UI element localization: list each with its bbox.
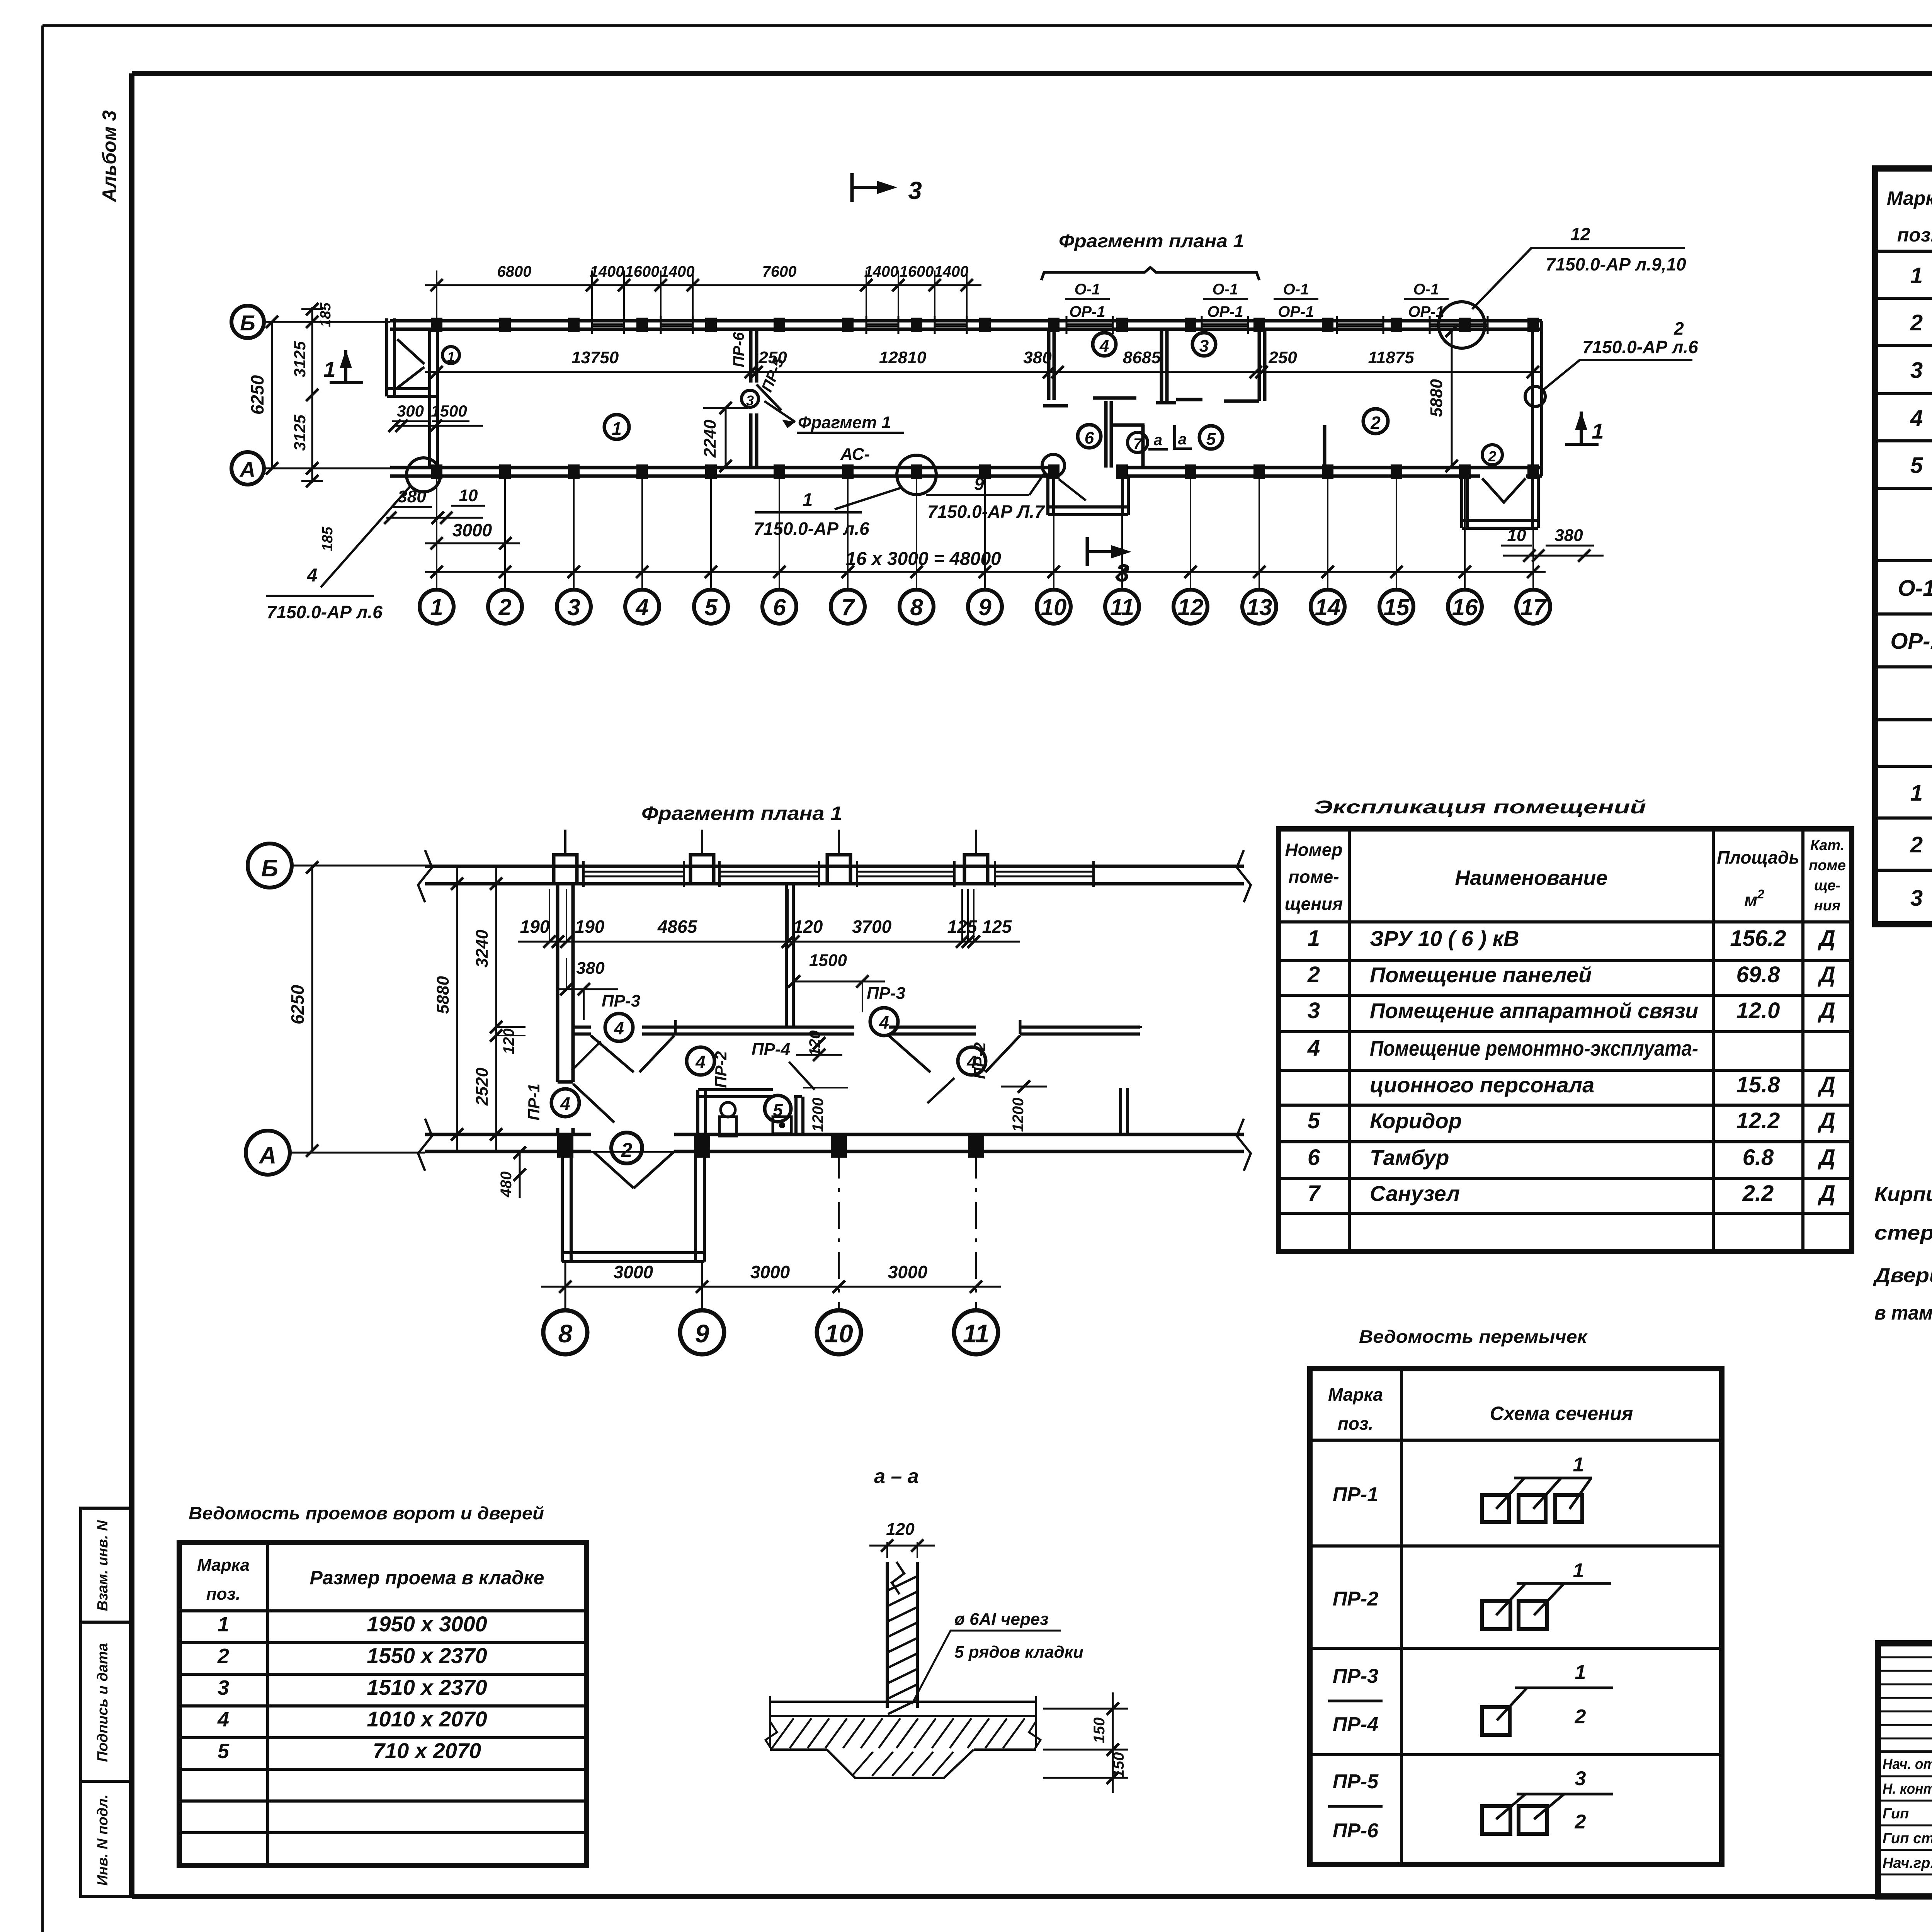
svg-text:Экспликация помещений: Экспликация помещений <box>1314 797 1646 818</box>
svg-text:Фрагмент плана 1: Фрагмент плана 1 <box>1059 231 1244 252</box>
axis B circle <box>231 306 390 338</box>
dimension 380/10 (bottom left) <box>384 486 485 524</box>
svg-text:О-1: О-1 <box>1213 281 1238 298</box>
svg-text:1950 x 3000: 1950 x 3000 <box>367 1612 487 1636</box>
svg-text:Марка: Марка <box>1328 1384 1383 1405</box>
svg-text:1: 1 <box>1910 263 1923 288</box>
svg-text:12.2: 12.2 <box>1736 1108 1780 1133</box>
door mark circle 4 at 2288 <box>870 1008 898 1036</box>
fragment wall A pilasters <box>557 1134 984 1158</box>
svg-text:4: 4 <box>307 565 318 586</box>
svg-text:3125: 3125 <box>291 415 309 451</box>
svg-text:Д: Д <box>1817 1181 1835 1206</box>
lintel section diagrams <box>1482 1454 1613 1834</box>
callout 2 / 7150.0-AR l.6 (right wall) <box>1525 318 1698 406</box>
svg-text:5 рядов кладки: 5 рядов кладки <box>954 1643 1083 1662</box>
svg-text:5: 5 <box>773 1100 783 1120</box>
svg-text:ПР-1: ПР-1 <box>525 1083 543 1121</box>
svg-text:поз.: поз. <box>1897 224 1932 246</box>
svg-text:а: а <box>1154 432 1162 449</box>
section hatched band and footing <box>770 1716 1036 1778</box>
svg-text:156.2: 156.2 <box>1730 926 1786 951</box>
svg-text:АС-: АС- <box>840 445 870 464</box>
section mark 3 (bottom) <box>1087 537 1131 587</box>
fragment dimension 480 <box>498 1146 526 1198</box>
svg-text:Кат.: Кат. <box>1810 837 1844 854</box>
svg-text:Марка: Марка <box>197 1556 250 1575</box>
fragment dimension 380 <box>558 958 618 1020</box>
svg-text:12.0: 12.0 <box>1736 998 1780 1023</box>
svg-text:Двери в перегородке в помещени: Двери в перегородке в помещении ЗРУ и пр… <box>1873 1264 1932 1287</box>
label PR-5 <box>759 355 787 395</box>
svg-text:6: 6 <box>773 594 786 620</box>
svg-text:3: 3 <box>746 393 754 408</box>
svg-text:190: 190 <box>520 917 550 937</box>
interior partitions of rooms 4 and 3 <box>1043 329 1265 406</box>
svg-text:3000: 3000 <box>888 1262 928 1282</box>
svg-text:3: 3 <box>1116 559 1129 587</box>
fragment wall B (top) <box>425 861 1244 887</box>
svg-text:6: 6 <box>1308 1145 1320 1170</box>
fragment axis circle 11 <box>954 1310 998 1354</box>
window openings in wall B <box>592 316 1488 334</box>
svg-text:4865: 4865 <box>657 917 698 937</box>
svg-text:3125: 3125 <box>291 341 309 378</box>
svg-text:в тамбур обить кровельной стал: в тамбур обить кровельной сталью по асбе… <box>1874 1302 1932 1324</box>
table: explication of rooms <box>1279 829 1852 1252</box>
svg-text:Д: Д <box>1817 998 1835 1023</box>
callout 4 / 7150.0-AR l.6 (axis 1) <box>266 458 440 622</box>
svg-text:380: 380 <box>1554 526 1583 545</box>
svg-text:3240: 3240 <box>473 930 492 968</box>
title block signature rows <box>1883 1754 1932 1871</box>
door mark circle 3 <box>742 390 759 408</box>
svg-text:А: А <box>239 457 255 481</box>
svg-text:6800: 6800 <box>497 263 532 280</box>
svg-text:ЗРУ 10 ( 6 ) кВ: ЗРУ 10 ( 6 ) кВ <box>1370 926 1519 951</box>
fragment leader label Fragmet 1 / AS- <box>764 401 904 464</box>
fragment break symbols <box>418 850 1251 1171</box>
svg-text:2: 2 <box>1910 310 1923 335</box>
partition at fragment left (PR-6 / PR-5) <box>751 329 781 468</box>
svg-text:2: 2 <box>1575 1706 1586 1728</box>
left margin stamp boxes <box>81 1508 132 1896</box>
fragment extent bracket <box>1041 267 1259 280</box>
room circle 2 (fragment) <box>611 1133 642 1163</box>
axis circle 9 <box>968 590 1002 624</box>
svg-text:380: 380 <box>1023 348 1052 367</box>
section wall bar with hatch <box>887 1562 917 1714</box>
window labels O-1/OP-1 <box>1065 281 1110 320</box>
axis extension lines to circles <box>437 476 1533 590</box>
table: door opening sizes <box>179 1543 587 1866</box>
left vertical dimension 6250 <box>247 316 278 474</box>
label PR-6 <box>730 332 747 367</box>
svg-text:Размер проема в кладке: Размер проема в кладке <box>310 1567 544 1588</box>
svg-text:1600: 1600 <box>625 263 660 280</box>
svg-text:9: 9 <box>695 1319 709 1348</box>
svg-text:ще-: ще- <box>1814 878 1840 894</box>
svg-text:Инв. N подл.: Инв. N подл. <box>95 1794 111 1886</box>
svg-text:2: 2 <box>1370 413 1381 433</box>
vertical dimension 5880 <box>1427 325 1458 472</box>
svg-text:1: 1 <box>612 418 622 439</box>
fragment dimension 1500 <box>788 951 885 1012</box>
svg-text:8: 8 <box>558 1319 573 1348</box>
svg-text:ПР-2: ПР-2 <box>1333 1588 1378 1610</box>
fragment dimensions 3240/2520/120 <box>473 866 526 1153</box>
door mark circle 4 at 1813 <box>687 1047 714 1075</box>
svg-text:6.8: 6.8 <box>1743 1145 1774 1170</box>
svg-text:ционного персонала: ционного персонала <box>1370 1073 1594 1097</box>
svg-text:12: 12 <box>1570 224 1590 244</box>
svg-text:7: 7 <box>841 594 855 620</box>
svg-text:12810: 12810 <box>879 348 927 367</box>
svg-text:1500: 1500 <box>809 951 847 970</box>
room circle 5 (fragment) <box>765 1095 791 1122</box>
svg-text:11: 11 <box>963 1319 990 1348</box>
notes text about brick partitions <box>1873 1183 1932 1324</box>
svg-text:10: 10 <box>825 1319 853 1348</box>
svg-text:3000: 3000 <box>614 1262 653 1282</box>
title: Fragment plana 1 (top plan label) <box>1059 231 1244 252</box>
fragment right small wall pieces <box>1020 1020 1128 1134</box>
svg-text:2: 2 <box>1673 318 1684 338</box>
svg-text:1: 1 <box>1592 419 1604 443</box>
svg-text:4: 4 <box>217 1708 229 1731</box>
left entrance porch <box>387 318 437 468</box>
dimension 10/380 (bottom right) <box>1501 526 1604 562</box>
vertical label Albom 3 <box>99 110 120 202</box>
svg-text:Д: Д <box>1817 1145 1835 1170</box>
svg-text:5: 5 <box>1206 430 1216 449</box>
svg-text:Схема сечения: Схема сечения <box>1490 1403 1633 1424</box>
svg-text:7: 7 <box>1308 1181 1321 1206</box>
axis circle 14 <box>1311 590 1345 624</box>
svg-text:а: а <box>1178 431 1187 448</box>
svg-text:185: 185 <box>318 302 334 327</box>
svg-text:1: 1 <box>430 594 443 620</box>
svg-text:5: 5 <box>218 1740 230 1763</box>
svg-text:Ведомость перемычек: Ведомость перемычек <box>1359 1327 1588 1347</box>
svg-text:14: 14 <box>1315 594 1341 620</box>
fragment wall A (bottom) <box>425 1134 1244 1151</box>
svg-text:ния: ния <box>1814 898 1841 914</box>
room circle 6 <box>1078 425 1101 448</box>
svg-text:4: 4 <box>560 1094 570 1114</box>
svg-text:3: 3 <box>1910 886 1923 911</box>
svg-text:ОР-1: ОР-1 <box>1069 303 1105 320</box>
svg-text:Фрагмет 1: Фрагмет 1 <box>798 413 891 432</box>
svg-text:4: 4 <box>1099 337 1109 355</box>
svg-text:190: 190 <box>575 917 605 937</box>
door mark circle 4 at 1602 <box>605 1014 633 1041</box>
svg-text:3000: 3000 <box>750 1262 790 1282</box>
svg-text:4: 4 <box>695 1052 706 1072</box>
svg-text:16 x 3000 = 48000: 16 x 3000 = 48000 <box>846 549 1001 569</box>
svg-text:2: 2 <box>1910 832 1923 857</box>
axis circle 5 <box>694 590 728 624</box>
table: lintel list <box>1310 1369 1722 1864</box>
svg-text:1: 1 <box>218 1613 229 1636</box>
svg-text:Гип стр.: Гип стр. <box>1883 1830 1932 1847</box>
svg-text:5880: 5880 <box>434 976 452 1014</box>
svg-text:7150.0-АР л.9,10: 7150.0-АР л.9,10 <box>1546 254 1686 274</box>
fragment dimension 3000 x3 <box>541 1262 1001 1293</box>
svg-text:185: 185 <box>320 526 336 551</box>
svg-text:О-1: О-1 <box>1898 576 1932 601</box>
svg-text:6: 6 <box>1085 429 1094 447</box>
svg-text:250: 250 <box>758 348 787 367</box>
section dimension 120 <box>869 1520 935 1558</box>
svg-text:1510 x 2370: 1510 x 2370 <box>367 1675 487 1699</box>
svg-text:5: 5 <box>704 594 718 620</box>
svg-text:Помещение панелей: Помещение панелей <box>1370 963 1592 987</box>
fragment wall A door opening with swing <box>593 1151 674 1188</box>
svg-text:120: 120 <box>886 1520 915 1539</box>
section mark 1-1 (right) <box>1565 412 1604 444</box>
svg-text:8: 8 <box>910 594 923 620</box>
svg-text:Б: Б <box>261 855 278 882</box>
svg-text:17: 17 <box>1520 594 1547 620</box>
small rooms 6/7/5 partitions near wall A <box>1106 401 1325 468</box>
section rebar leader <box>912 1610 1083 1704</box>
door mark circle 4 at 1463 <box>551 1089 579 1117</box>
svg-text:4: 4 <box>1307 1036 1320 1061</box>
vertical dimension 2240 <box>701 402 748 472</box>
labels PR-x (fragment) <box>525 984 989 1121</box>
svg-text:3: 3 <box>1308 998 1320 1023</box>
svg-text:а – а: а – а <box>874 1465 919 1488</box>
svg-text:7150.0-АР л.6: 7150.0-АР л.6 <box>753 519 869 539</box>
fragment axis dash-dot lines to circles <box>565 832 976 1310</box>
svg-text:Н. контр.: Н. контр. <box>1883 1781 1932 1797</box>
axis circle 17 <box>1516 590 1550 624</box>
axis A circle <box>231 452 390 485</box>
svg-text:10: 10 <box>1507 526 1526 545</box>
door mark circle 2 (right exit) <box>1482 445 1502 465</box>
axis circle 7 <box>831 590 865 624</box>
svg-text:6250: 6250 <box>287 985 308 1024</box>
title: section a-a <box>874 1465 919 1488</box>
axis circle 13 <box>1242 590 1276 624</box>
svg-text:Помещение ремонтно-эксплуата-: Помещение ремонтно-эксплуата- <box>1370 1036 1698 1060</box>
dimension 16 x 3000 = 48000 <box>425 549 1546 578</box>
door PR-3 right swing <box>889 1036 930 1072</box>
fragment axis circle 9 <box>680 1310 724 1354</box>
axis circle 3 <box>557 590 591 624</box>
svg-text:Б: Б <box>240 311 255 335</box>
svg-text:ПР-4: ПР-4 <box>1333 1713 1378 1736</box>
svg-text:ПР-2: ПР-2 <box>971 1042 989 1079</box>
svg-text:1: 1 <box>447 349 455 365</box>
axis circle 10 <box>1037 590 1071 624</box>
svg-text:2240: 2240 <box>701 420 719 458</box>
door leader diagonals for mark 4 <box>572 1041 954 1103</box>
svg-text:1600: 1600 <box>900 263 934 280</box>
svg-text:2: 2 <box>498 594 511 620</box>
fragment corridor partition <box>573 1027 1140 1034</box>
svg-text:2: 2 <box>1575 1811 1586 1833</box>
sink fixture <box>773 1117 791 1134</box>
svg-text:ПР-3: ПР-3 <box>1333 1665 1378 1687</box>
svg-text:16: 16 <box>1452 594 1478 620</box>
svg-text:Гип: Гип <box>1883 1806 1909 1822</box>
fragment axis circle 10 <box>817 1310 861 1354</box>
svg-text:ПР-6: ПР-6 <box>1333 1820 1379 1842</box>
fragment dimension 5880 <box>434 866 463 1153</box>
svg-text:300: 300 <box>397 402 424 420</box>
svg-text:поз.: поз. <box>206 1585 240 1604</box>
svg-text:3: 3 <box>908 177 922 204</box>
fragment left transverse wall <box>558 884 573 1134</box>
svg-text:О-1: О-1 <box>1075 281 1100 298</box>
svg-text:3: 3 <box>1575 1767 1586 1790</box>
svg-text:Фрагмент плана 1: Фрагмент плана 1 <box>641 803 842 824</box>
svg-text:Санузел: Санузел <box>1370 1181 1460 1206</box>
svg-text:Нач. отд.: Нач. отд. <box>1883 1756 1932 1772</box>
svg-text:2: 2 <box>1488 449 1496 465</box>
svg-text:4: 4 <box>879 1012 889 1032</box>
svg-text:1: 1 <box>803 490 813 510</box>
svg-text:1400: 1400 <box>660 263 695 280</box>
svg-text:7150.0-АР л.6: 7150.0-АР л.6 <box>1582 337 1698 357</box>
svg-text:Д: Д <box>1817 1072 1835 1097</box>
svg-text:1500: 1500 <box>431 402 467 420</box>
section letters a-a on plan <box>1148 431 1192 449</box>
svg-text:ПР-3: ПР-3 <box>867 984 905 1003</box>
svg-text:Марка: Марка <box>1887 187 1932 209</box>
svg-text:1010 x 2070: 1010 x 2070 <box>367 1707 487 1731</box>
fragment axis B circle <box>248 844 1244 888</box>
axis circle 4 <box>625 590 659 624</box>
svg-text:9: 9 <box>978 594 992 620</box>
fragment bottom tambour <box>562 1151 704 1262</box>
svg-text:Д: Д <box>1817 1108 1835 1133</box>
svg-text:1400: 1400 <box>934 263 969 280</box>
dimension 300/1500 (left porch) <box>388 402 483 432</box>
svg-text:9: 9 <box>974 474 984 494</box>
svg-text:щения: щения <box>1285 894 1343 914</box>
main title block frame <box>1878 1643 1932 1896</box>
svg-text:3: 3 <box>1199 337 1209 355</box>
svg-text:6250: 6250 <box>247 375 267 415</box>
fragment axis A circle <box>246 1131 1244 1175</box>
svg-text:А: А <box>259 1142 277 1169</box>
specification table data rows <box>1890 263 1932 911</box>
svg-text:1400: 1400 <box>864 263 899 280</box>
top dimension chain (6800/1400/1600...) <box>425 263 981 318</box>
svg-text:Ведомость проемов ворот и двер: Ведомость проемов ворот и дверей <box>189 1503 544 1523</box>
column marks on walls <box>431 318 1539 479</box>
svg-text:3: 3 <box>1910 358 1923 383</box>
right end wall <box>1532 321 1542 476</box>
svg-text:1200: 1200 <box>810 1098 827 1132</box>
svg-text:10: 10 <box>1041 594 1067 620</box>
svg-text:Кирпичные перегородки толщиной: Кирпичные перегородки толщиной 120 мм ар… <box>1874 1183 1932 1206</box>
svg-text:Д: Д <box>1817 962 1835 987</box>
fragment wall B pilasters <box>554 830 988 884</box>
axis circle 12 <box>1173 590 1207 624</box>
second dimension line (13750/250/12810/380/8685/250/11875) <box>425 348 1542 378</box>
svg-text:7: 7 <box>1133 435 1143 452</box>
svg-text:О-1: О-1 <box>1413 281 1439 298</box>
axis circle 6 <box>762 590 796 624</box>
svg-text:2520: 2520 <box>473 1068 492 1106</box>
fragment left dimension 6250 <box>287 861 318 1157</box>
title: Eksplikatsiya pomeshcheniy <box>1314 797 1646 818</box>
svg-text:Альбом 3: Альбом 3 <box>99 110 120 202</box>
svg-text:11875: 11875 <box>1368 348 1414 367</box>
callout 9 / 7150.0-AR L.7 <box>926 454 1065 522</box>
svg-text:ОР-1: ОР-1 <box>1890 629 1932 654</box>
door mark circle 1 (entrance) <box>442 347 459 365</box>
svg-text:ОР-1: ОР-1 <box>1278 303 1314 320</box>
svg-text:Д: Д <box>1817 926 1835 951</box>
svg-text:13: 13 <box>1247 594 1272 620</box>
svg-text:710 x 2070: 710 x 2070 <box>373 1738 481 1763</box>
svg-text:Тамбур: Тамбур <box>1370 1145 1449 1170</box>
svg-text:69.8: 69.8 <box>1736 962 1781 987</box>
svg-text:ø 6АI через: ø 6АI через <box>954 1610 1049 1629</box>
wall along axis A (bottom) <box>390 468 1542 476</box>
svg-text:1550 x 2370: 1550 x 2370 <box>367 1643 487 1668</box>
svg-text:15.8: 15.8 <box>1736 1072 1781 1097</box>
svg-text:Помещение аппаратной связи: Помещение аппаратной связи <box>1370 998 1698 1023</box>
axis circle 2 <box>488 590 522 624</box>
svg-text:поз.: поз. <box>1338 1413 1373 1434</box>
svg-text:4: 4 <box>635 594 648 620</box>
svg-text:7150.0-АР Л.7: 7150.0-АР Л.7 <box>927 502 1045 522</box>
door PR-1 swing <box>573 1084 614 1122</box>
door PR-2 right swing <box>985 1036 1020 1072</box>
svg-text:13750: 13750 <box>571 348 619 367</box>
svg-text:7150.0-АР л.6: 7150.0-АР л.6 <box>267 602 383 622</box>
wall along axis B (top) <box>390 321 1542 329</box>
svg-text:120: 120 <box>793 917 823 937</box>
room circle 4 <box>1093 333 1116 356</box>
svg-text:2: 2 <box>1307 962 1320 987</box>
svg-text:8685: 8685 <box>1123 348 1161 367</box>
svg-text:150: 150 <box>1110 1752 1127 1778</box>
axis circle 11 <box>1105 590 1139 624</box>
svg-text:Нач.гр.: Нач.гр. <box>1883 1855 1932 1871</box>
fragment top dimension chain 190/190/4865/120/3700/125/125 <box>518 889 1020 948</box>
svg-text:7600: 7600 <box>762 263 797 280</box>
callout 1 / 7150.0-AR l.6 (axis 8) <box>753 455 936 539</box>
fragment middle partition (120) <box>786 884 793 1027</box>
title: Vedomost proemov vorot i dverey <box>189 1503 544 1523</box>
svg-text:Номер: Номер <box>1285 840 1342 860</box>
callout 12 / 7150.0-AR l.9,10 (window circle) <box>1439 224 1686 348</box>
section mark 3 (top) <box>852 173 922 204</box>
tambour below wall A (axes 10-11) <box>1048 476 1128 515</box>
svg-text:11: 11 <box>1110 594 1134 620</box>
fragment axis circle 8 <box>543 1310 587 1354</box>
svg-text:1200: 1200 <box>1010 1098 1027 1132</box>
svg-text:1: 1 <box>1573 1560 1584 1582</box>
left vertical dimensions 185/3125/3125/185 <box>290 302 336 551</box>
svg-text:10: 10 <box>459 486 478 505</box>
door PR-2 mid swing <box>639 1020 675 1072</box>
svg-text:1400: 1400 <box>590 263 624 280</box>
svg-text:О-1: О-1 <box>1283 281 1309 298</box>
svg-text:Площадь: Площадь <box>1717 847 1799 867</box>
section floor slab <box>765 1696 1041 1751</box>
svg-text:2: 2 <box>217 1645 229 1668</box>
svg-text:ПР-1: ПР-1 <box>1333 1483 1378 1506</box>
svg-text:4: 4 <box>1910 406 1923 431</box>
